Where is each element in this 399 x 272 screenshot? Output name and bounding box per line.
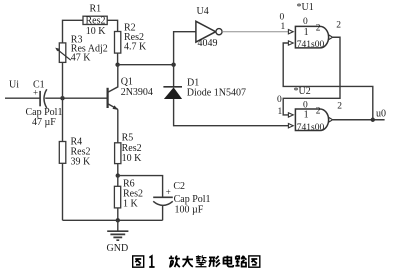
glyph 大 [182,256,193,267]
wire: C1 to Q1 base [45,97,107,99]
resistor R3 Res Adj2 [55,35,108,64]
svg-text:47 µF: 47 µF [32,117,56,128]
glyph 整 [196,255,207,266]
svg-text:R1: R1 [90,3,102,14]
resistor R4 [59,137,91,168]
wire: node to C2 top [118,176,163,198]
svg-text:1: 1 [278,107,283,117]
svg-text:GND: GND [107,243,129,254]
transistor Q1 [108,65,153,110]
wire: U2 output to u0 [333,119,385,121]
svg-text:*U2: *U2 [294,86,311,97]
diode D1 [163,65,246,99]
wire: input node to R4 [62,98,64,141]
wire: node to R6 [117,176,119,187]
node: input junction [60,96,64,100]
wire: R1 right to R2 top [107,20,117,31]
svg-text:10 K: 10 K [122,153,143,164]
capacitor C2 [153,181,210,215]
node: R5 R6 C2 junction [116,173,120,177]
svg-text:+: + [33,88,38,98]
wire: U4 output to U1 input A [222,31,288,33]
nand gate U2 [277,86,342,133]
svg-text:0: 0 [303,17,308,27]
caption: 图1 放大整形电路图 [133,255,260,267]
glyph 图 (second) [249,256,260,267]
svg-text:U4: U4 [197,6,209,17]
ground GND [107,220,129,254]
svg-text:100 µF: 100 µF [175,204,204,215]
capacitor C1 [26,79,63,128]
glyph 1 [149,256,154,267]
svg-text:u0: u0 [376,109,386,120]
wire: emitter to R5 [117,109,119,142]
svg-text:Q1: Q1 [121,77,133,88]
glyph 路 [235,256,246,267]
wire: U1 output feedback to U2 input A [283,37,340,115]
svg-text:4049: 4049 [198,38,218,49]
wire: collector rail [118,64,174,66]
svg-text:47 K: 47 K [71,52,92,63]
node: rail D1 U4 junction [171,62,175,66]
node: u0 junction [371,118,375,122]
svg-text:1: 1 [304,27,309,38]
wire: R6 bottom to ground rail [117,208,119,221]
wire: ground rail [63,219,163,221]
resistor R1 [83,3,107,37]
svg-text:741s00: 741s00 [297,123,325,133]
svg-text:C2: C2 [173,181,185,192]
svg-text:2N3904: 2N3904 [121,87,153,98]
wire: D1 anode to U2 input B [174,99,289,126]
wire: R3 bottom to input node [62,62,64,98]
wire: u0 feedback to U1 input B [283,43,373,120]
svg-text:2: 2 [336,20,341,30]
svg-text:0: 0 [277,95,282,105]
inverter U4 [174,6,222,64]
glyph 图 [133,256,144,267]
wire: input Ui to C1 [5,97,40,99]
svg-text:39 K: 39 K [71,156,92,167]
svg-text:0: 0 [280,12,285,22]
svg-text:*U1: *U1 [297,2,314,13]
svg-text:2: 2 [316,106,321,116]
glyph 放 [169,256,180,267]
resistor R6 [114,179,143,210]
svg-text:Res2: Res2 [86,16,106,27]
nand gate U1 [280,2,342,50]
resistor R5 [115,133,143,165]
wire: R2 bottom to collector rail [117,53,119,65]
svg-text:+: + [166,187,171,197]
node: ground junction [116,218,120,222]
svg-text:2: 2 [316,24,321,34]
glyph 电 [224,256,234,267]
wire: C2 bottom to ground rail [162,206,164,221]
wire: R5 bottom to node [117,164,119,176]
resistor R2 [115,22,148,53]
svg-text:Diode 1N5407: Diode 1N5407 [187,88,246,99]
svg-text:1: 1 [281,22,286,32]
svg-text:Ui: Ui [9,79,19,90]
svg-text:10 K: 10 K [86,26,107,37]
wire: R1 left to R3 top [63,20,84,43]
svg-text:2: 2 [337,101,342,111]
svg-text:4.7 K: 4.7 K [124,41,147,52]
wire: R4 bottom to ground rail [62,163,64,220]
node: collector junction [115,62,119,66]
svg-text:741s00: 741s00 [297,40,325,50]
glyph 形 [209,256,220,267]
svg-text:1: 1 [304,109,309,120]
svg-text:1 K: 1 K [123,199,139,210]
